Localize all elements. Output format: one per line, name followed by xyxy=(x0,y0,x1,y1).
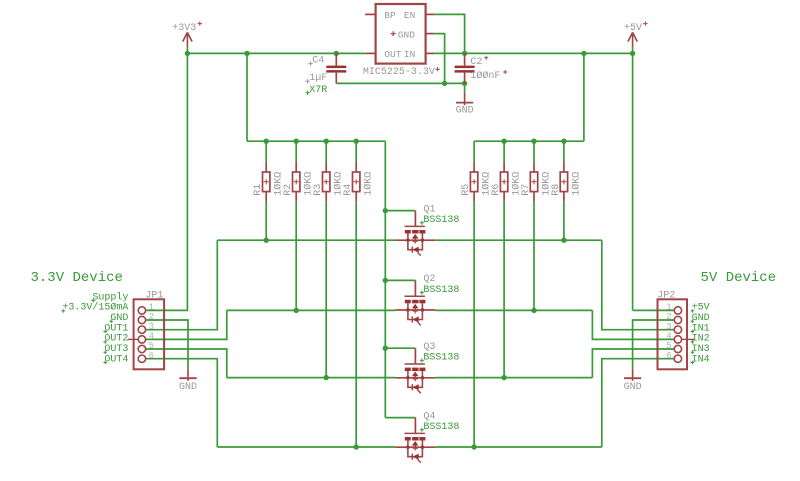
node R5 bottom xyxy=(471,444,476,449)
wire JP1 pin3 OUT1 xyxy=(146,240,218,330)
svg-text:Q3: Q3 xyxy=(423,342,435,353)
node Q2 gate xyxy=(383,278,388,283)
wire R8 to Q1 row xyxy=(563,201,565,240)
wire Q1 source row left xyxy=(217,239,395,241)
svg-text:R7: R7 xyxy=(521,184,532,196)
svg-text:GND: GND xyxy=(456,105,474,116)
node JP1 labels xyxy=(61,291,128,365)
node Q3 gate xyxy=(383,346,388,351)
wire left pullup rail xyxy=(247,140,385,142)
svg-text:GND: GND xyxy=(624,382,642,393)
wire JP2 pin1 to 5V xyxy=(633,309,675,311)
svg-text:BSS138: BSS138 xyxy=(423,422,459,433)
wire Q3 source row left xyxy=(227,377,395,379)
svg-text:1: 1 xyxy=(666,303,671,313)
svg-text:BP: BP xyxy=(384,10,396,21)
wire 5V vertical to JP2 pin1 xyxy=(632,47,634,311)
wire R6 to Q3 row xyxy=(503,201,505,377)
wire R5 to Q4 row xyxy=(473,201,475,447)
connector JP1 xyxy=(128,290,165,369)
node R2 top xyxy=(294,139,299,144)
wire JP1 pin5 OUT3 xyxy=(146,349,227,378)
supply +5V xyxy=(624,21,648,47)
node reg GND junction xyxy=(442,81,447,86)
svg-text:6: 6 xyxy=(666,351,671,361)
node R4 top xyxy=(354,139,359,144)
node R7 bottom xyxy=(531,308,536,313)
resistor R2 10K xyxy=(283,162,314,201)
svg-text:+3.3V/15ØmA: +3.3V/15ØmA xyxy=(62,302,128,314)
svg-text:5V Device: 5V Device xyxy=(701,270,777,286)
svg-text:GND: GND xyxy=(398,29,415,40)
transistor Q3 BSS138 xyxy=(385,342,459,393)
node C2 bottom xyxy=(462,81,467,86)
svg-text:C4: C4 xyxy=(312,56,324,67)
svg-text:Supply: Supply xyxy=(92,291,128,303)
wire JP2 pin2 to GND xyxy=(633,320,675,369)
svg-text:BSS138: BSS138 xyxy=(423,285,459,296)
wire R2 top lead xyxy=(295,141,297,162)
resistor R7 10K xyxy=(521,162,552,201)
svg-text:1ØKΩ: 1ØKΩ xyxy=(363,172,375,196)
resistor R5 10K xyxy=(461,162,492,201)
node R7 top xyxy=(531,139,536,144)
wire R7 top lead xyxy=(533,141,535,162)
node R3 bottom xyxy=(324,375,329,380)
wire R4 to Q4 row xyxy=(355,201,357,447)
wire JP1 pin4 OUT2 xyxy=(146,310,227,339)
wire R1 to Q1 row xyxy=(265,201,267,240)
resistor R1 10K xyxy=(253,162,284,201)
svg-text:5: 5 xyxy=(149,341,154,351)
svg-text:Q2: Q2 xyxy=(423,274,435,285)
resistor R4 10K xyxy=(343,162,374,201)
svg-text:JP1: JP1 xyxy=(145,290,163,301)
ground under JP1 xyxy=(179,369,197,393)
supply +3V3 xyxy=(172,21,202,47)
wire 3V3 vertical to JP1 pin1 xyxy=(186,47,188,311)
svg-text:2: 2 xyxy=(149,312,154,322)
svg-text:GND: GND xyxy=(179,382,197,393)
wire Q4 source row left xyxy=(217,446,395,448)
wire JP1 pin1 to 3V3 xyxy=(146,309,188,311)
capacitor C4 xyxy=(305,53,346,95)
op-amp U1 MIC5225-3.3V regulator xyxy=(363,4,440,78)
svg-text:R1: R1 xyxy=(253,184,264,196)
svg-text:OUT4: OUT4 xyxy=(104,354,128,365)
wire Q4 drain row right xyxy=(435,446,602,448)
wire 3V3 drop to pullup rail xyxy=(246,53,248,141)
svg-text:IN: IN xyxy=(404,49,415,60)
ground under C2 xyxy=(456,93,474,116)
svg-text:OUT1: OUT1 xyxy=(104,323,128,334)
resistor R3 10K xyxy=(313,162,344,201)
wire Q2 drain row right xyxy=(435,309,592,311)
svg-text:X7R: X7R xyxy=(309,85,327,96)
wire R2 to Q2 row xyxy=(295,201,297,310)
svg-text:6: 6 xyxy=(149,351,154,361)
node R8 bottom xyxy=(561,238,566,243)
wire R3 top lead xyxy=(325,141,327,162)
node R1 bottom xyxy=(264,238,269,243)
wire R8 top lead xyxy=(563,141,565,162)
wire R7 to Q2 row xyxy=(533,201,535,310)
node R1 top xyxy=(264,139,269,144)
wire JP2 pin3 IN1 xyxy=(602,240,674,330)
svg-text:BSS138: BSS138 xyxy=(423,215,459,226)
svg-text:1ØKΩ: 1ØKΩ xyxy=(570,172,582,196)
wire JP2 pin4 IN2 xyxy=(592,310,674,339)
connector JP2 xyxy=(657,290,694,369)
wire EN to IN xyxy=(434,14,464,53)
svg-text:+3V3: +3V3 xyxy=(172,23,196,34)
node R6 top xyxy=(501,139,506,144)
node 5V rail drop xyxy=(581,51,586,56)
wire R5 top lead xyxy=(473,141,475,162)
svg-text:1µF: 1µF xyxy=(309,73,327,84)
wire R4 top lead xyxy=(355,141,357,162)
node 3V3 rail / arrow xyxy=(185,51,190,56)
node R4 bottom xyxy=(354,444,359,449)
wire 3V3 rail top xyxy=(187,52,365,54)
resistor R8 10K xyxy=(551,162,582,201)
svg-text:5: 5 xyxy=(666,341,671,351)
transistor Q1 BSS138 xyxy=(385,204,459,255)
node Q1 gate xyxy=(383,208,388,213)
svg-text:IN1: IN1 xyxy=(692,323,710,334)
wire JP2 pin6 IN4 xyxy=(602,359,674,447)
node 3V3 rail drop xyxy=(244,51,249,56)
svg-text:4: 4 xyxy=(666,332,671,342)
svg-text:BSS138: BSS138 xyxy=(423,353,459,364)
node C4 top xyxy=(334,51,339,56)
svg-text:JP2: JP2 xyxy=(657,290,675,301)
wire regulator GND down xyxy=(434,34,444,84)
wire gate bus vertical xyxy=(384,141,386,417)
ground under JP2 xyxy=(624,369,642,393)
svg-text:MIC5225-3.3V: MIC5225-3.3V xyxy=(363,67,435,78)
svg-text:C2: C2 xyxy=(470,57,482,68)
wire R3 to Q3 row xyxy=(325,201,327,377)
svg-text:Q1: Q1 xyxy=(423,204,435,215)
wire JP1 pin2 to GND xyxy=(146,320,188,369)
svg-text:R2: R2 xyxy=(283,184,294,196)
node R3 top xyxy=(324,139,329,144)
capacitor C2 xyxy=(455,53,508,83)
wire 5V drop to pullup rail xyxy=(583,53,585,141)
svg-text:3.3V Device: 3.3V Device xyxy=(31,270,123,286)
svg-text:3: 3 xyxy=(149,322,154,332)
node C2 top / EN xyxy=(462,51,467,56)
wire JP1 pin6 OUT4 xyxy=(146,359,218,447)
wire Q1 drain row right xyxy=(435,239,602,241)
svg-text:Q4: Q4 xyxy=(423,411,435,422)
svg-text:3: 3 xyxy=(666,322,671,332)
svg-text:R8: R8 xyxy=(551,184,562,196)
transistor Q4 BSS138 xyxy=(385,411,459,462)
wire right pullup rail xyxy=(474,140,584,142)
wire C2 gnd stub xyxy=(464,83,466,93)
wire R1 top lead xyxy=(265,141,267,162)
wire Q2 source row left xyxy=(227,309,395,311)
wire GND net C4-C2 xyxy=(336,82,464,84)
node JP2 labels xyxy=(691,303,710,366)
svg-text:R5: R5 xyxy=(461,184,472,196)
svg-text:1ØØnF: 1ØØnF xyxy=(470,70,500,82)
wire 5V rail top xyxy=(434,52,632,54)
svg-text:4: 4 xyxy=(149,332,154,342)
node R8 top xyxy=(561,139,566,144)
node 5V rail / arrow xyxy=(630,51,635,56)
svg-text:R6: R6 xyxy=(491,184,502,196)
svg-text:OUT: OUT xyxy=(384,49,401,60)
node R2 bottom xyxy=(294,308,299,313)
transistor Q2 BSS138 xyxy=(385,274,459,325)
wire Q3 drain row right xyxy=(435,377,592,379)
svg-text:+5V: +5V xyxy=(624,23,642,34)
svg-text:IN4: IN4 xyxy=(692,354,710,365)
svg-text:R4: R4 xyxy=(343,184,354,196)
svg-text:R3: R3 xyxy=(313,184,324,196)
svg-text:EN: EN xyxy=(404,10,415,21)
svg-text:2: 2 xyxy=(666,312,671,322)
resistor R6 10K xyxy=(491,162,522,201)
wire R6 top lead xyxy=(503,141,505,162)
svg-text:1: 1 xyxy=(149,303,154,313)
wire JP2 pin5 IN3 xyxy=(592,349,674,378)
node R6 bottom xyxy=(501,375,506,380)
